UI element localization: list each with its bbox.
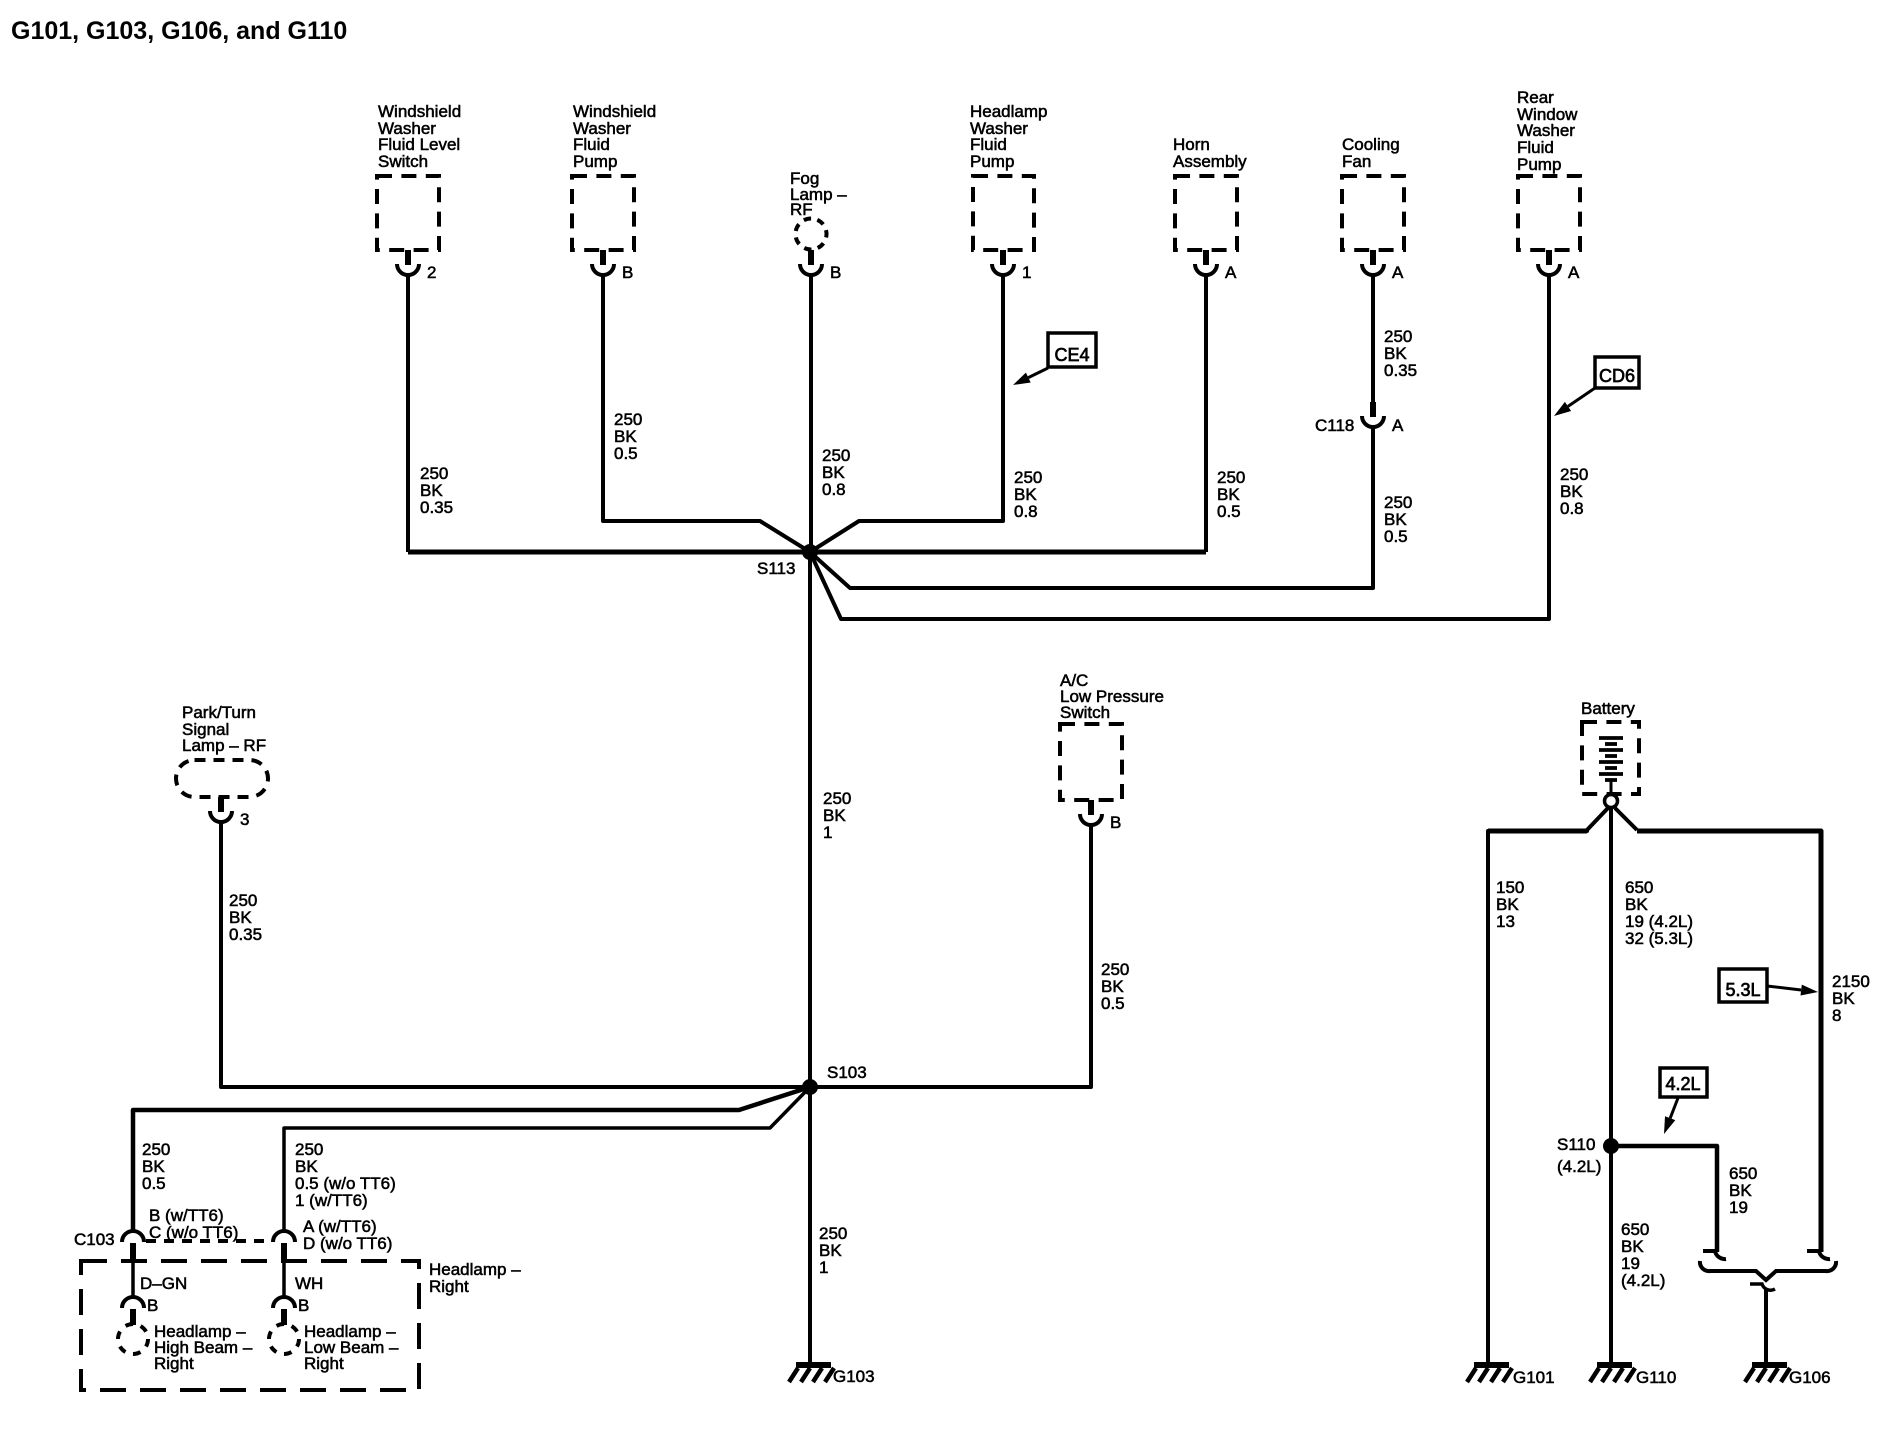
svg-text:Headlamp –Low Beam –Right: Headlamp –Low Beam –Right — [304, 1322, 399, 1373]
connector pin A of horn — [1195, 250, 1217, 275]
wire cooling fan to C118 — [1371, 275, 1375, 403]
svg-text:250BK1: 250BK1 — [819, 1224, 847, 1277]
svg-text:250BK0.8: 250BK0.8 — [1560, 465, 1588, 518]
svg-text:A: A — [1392, 416, 1404, 435]
svg-text:650BK19(4.2L): 650BK19(4.2L) — [1621, 1220, 1665, 1290]
ground G101 — [1467, 1365, 1512, 1382]
splice S103 — [802, 1079, 818, 1095]
windshield washer fluid level switch box — [377, 176, 439, 250]
wire S103 to G103 — [808, 1087, 812, 1365]
headlamp washer fluid pump box — [973, 176, 1034, 250]
rear window washer fluid pump box — [1518, 176, 1580, 250]
svg-text:D–GN: D–GN — [140, 1274, 187, 1293]
wire C118 to S113 — [810, 427, 1373, 588]
svg-text:250BK0.5: 250BK0.5 — [1384, 493, 1412, 546]
wire horn to S113 — [1204, 275, 1208, 552]
svg-text:RearWindowWasherFluidPump: RearWindowWasherFluidPump — [1517, 88, 1578, 174]
park/turn lamp dashed outline — [176, 760, 268, 797]
svg-text:G101: G101 — [1513, 1368, 1555, 1387]
cooling fan box — [1342, 176, 1404, 250]
callout CD6 — [1595, 357, 1639, 388]
wire park/turn lamp to S103 — [221, 822, 810, 1087]
fog lamp dashed circle — [796, 219, 827, 250]
wire battery to right branch — [1615, 808, 1637, 830]
svg-text:FogLamp –RF: FogLamp –RF — [790, 169, 847, 219]
callout 4.2L — [1660, 1068, 1707, 1097]
connector pin A of rear window pump — [1538, 250, 1560, 275]
brace joining branches — [1700, 1261, 1836, 1280]
svg-text:S103: S103 — [827, 1063, 867, 1082]
headlamp high beam bulb — [118, 1324, 148, 1354]
ground G110 — [1590, 1365, 1635, 1382]
svg-text:HornAssembly: HornAssembly — [1173, 135, 1247, 171]
callout 4.2L arrow — [1664, 1098, 1678, 1134]
connector pin B of washer fluid pump — [592, 250, 614, 275]
svg-text:250BK0.8: 250BK0.8 — [1014, 468, 1042, 521]
svg-text:A (w/TT6)D (w/o TT6): A (w/TT6)D (w/o TT6) — [303, 1217, 392, 1253]
wire battery to S110 and G110 — [1609, 808, 1613, 1365]
headlamp right dashed box — [81, 1261, 419, 1390]
connector pin B of fog lamp — [800, 250, 822, 275]
wire S103 to headlamp low beam — [284, 1087, 810, 1232]
wire fluid level switch to S113 — [406, 275, 410, 552]
horn assembly box — [1175, 176, 1237, 250]
callout CD6 arrow — [1554, 388, 1595, 416]
wire washer fluid pump to S113 — [603, 275, 810, 552]
svg-text:WH: WH — [295, 1274, 323, 1293]
svg-text:Headlamp –Right: Headlamp –Right — [429, 1260, 521, 1296]
svg-text:B: B — [147, 1296, 158, 1315]
callout 5.3L arrow — [1767, 985, 1818, 996]
svg-text:G101, G103, G106, and G110: G101, G103, G106, and G110 — [11, 17, 347, 45]
svg-text:S113: S113 — [757, 559, 795, 578]
connector C103 high beam side — [122, 1231, 144, 1259]
svg-text:CD6: CD6 — [1599, 366, 1635, 386]
headlamp low beam bulb — [269, 1324, 299, 1354]
svg-text:B: B — [1110, 813, 1121, 832]
ground G106 — [1745, 1365, 1790, 1382]
connector pin B high beam — [122, 1297, 144, 1325]
svg-text:250BK1: 250BK1 — [823, 789, 851, 842]
svg-text:250BK0.8: 250BK0.8 — [822, 446, 850, 499]
wire S113 to S103 — [808, 552, 812, 1087]
svg-text:250BK0.5 (w/o TT6)1 (w/TT6): 250BK0.5 (w/o TT6)1 (w/TT6) — [295, 1140, 396, 1210]
connector pin B of a/c switch — [1080, 800, 1102, 825]
callout 5.3L — [1719, 969, 1767, 1002]
connector pin 3 of park/turn lamp — [210, 797, 232, 822]
battery box — [1582, 722, 1639, 794]
splice S113 — [802, 544, 818, 560]
svg-text:Battery: Battery — [1581, 699, 1635, 718]
svg-text:C103: C103 — [74, 1230, 115, 1249]
wire S110 branch right — [1611, 1146, 1717, 1252]
svg-text:250BK0.35: 250BK0.35 — [420, 464, 453, 517]
svg-text:HeadlampWasherFluidPump: HeadlampWasherFluidPump — [970, 102, 1048, 171]
connector C118 — [1362, 402, 1384, 427]
svg-text:1: 1 — [1022, 263, 1031, 282]
battery cell symbol — [1599, 738, 1623, 795]
svg-text:250BK0.5: 250BK0.5 — [1101, 960, 1129, 1013]
svg-text:150BK13: 150BK13 — [1496, 878, 1524, 931]
svg-text:650BK19: 650BK19 — [1729, 1164, 1757, 1217]
wire headlamp washer pump to S113 — [810, 275, 1003, 552]
svg-text:B (w/TT6)C (w/o TT6): B (w/TT6)C (w/o TT6) — [149, 1206, 238, 1242]
svg-text:2150BK8: 2150BK8 — [1832, 972, 1870, 1025]
svg-text:WindshieldWasherFluidPump: WindshieldWasherFluidPump — [573, 102, 656, 171]
callout CE4 — [1048, 333, 1096, 367]
wire battery left branch horizontal — [1488, 829, 1587, 834]
svg-text:A: A — [1225, 263, 1237, 282]
connector pin 1 of headlamp washer pump — [992, 250, 1014, 275]
svg-text:B: B — [622, 263, 633, 282]
hook above G106 wire — [1750, 1284, 1775, 1290]
wire rear window pump to S113 — [810, 275, 1549, 619]
svg-text:B: B — [298, 1296, 309, 1315]
svg-text:650BK19 (4.2L)32 (5.3L): 650BK19 (4.2L)32 (5.3L) — [1625, 878, 1693, 948]
svg-text:250BK0.35: 250BK0.35 — [229, 891, 262, 944]
connector pin 2 of fluid level switch — [397, 250, 419, 275]
wire C103 to high beam lamp — [131, 1259, 135, 1298]
svg-text:250BK0.5: 250BK0.5 — [614, 410, 642, 463]
wire a/c switch to S103 — [810, 825, 1091, 1087]
svg-text:250BK0.5: 250BK0.5 — [1217, 468, 1245, 521]
wire battery to left branch — [1488, 808, 1608, 1365]
svg-text:G110: G110 — [1636, 1368, 1676, 1387]
svg-text:A/CLow PressureSwitch: A/CLow PressureSwitch — [1060, 671, 1164, 722]
C103 dashed connector link — [146, 1239, 272, 1243]
battery terminal circle — [1605, 795, 1618, 808]
svg-text:CE4: CE4 — [1054, 345, 1089, 365]
wire C103 to low beam lamp — [282, 1259, 286, 1298]
ground G103 — [789, 1365, 834, 1382]
svg-text:3: 3 — [240, 810, 249, 829]
svg-text:CoolingFan: CoolingFan — [1342, 135, 1400, 171]
svg-text:Headlamp –High Beam –Right: Headlamp –High Beam –Right — [154, 1322, 253, 1373]
svg-text:4.2L: 4.2L — [1665, 1074, 1700, 1094]
connector pin B low beam — [273, 1297, 295, 1325]
main bus wire at S113 — [408, 550, 1206, 555]
svg-text:250BK0.35: 250BK0.35 — [1384, 327, 1417, 380]
svg-text:G106: G106 — [1789, 1368, 1831, 1387]
wire brace to G106 — [1764, 1289, 1768, 1365]
svg-text:WindshieldWasherFluid LevelSwi: WindshieldWasherFluid LevelSwitch — [378, 102, 461, 171]
a/c low pressure switch box — [1060, 724, 1122, 800]
svg-text:A: A — [1392, 263, 1404, 282]
svg-text:B: B — [830, 263, 841, 282]
svg-text:G103: G103 — [833, 1367, 875, 1386]
svg-text:C118: C118 — [1315, 416, 1354, 435]
svg-text:Park/TurnSignalLamp – RF: Park/TurnSignalLamp – RF — [182, 703, 266, 755]
svg-text:2: 2 — [427, 263, 436, 282]
hook terminal left — [1703, 1251, 1726, 1259]
hook terminal right — [1807, 1251, 1830, 1259]
connector pin A of cooling fan — [1362, 250, 1384, 275]
wire fog lamp to S113 — [809, 274, 813, 552]
callout CE4 arrow — [1013, 368, 1048, 385]
wire battery right branch horizontal — [1637, 831, 1821, 1252]
svg-text:S110(4.2L): S110(4.2L) — [1557, 1135, 1601, 1176]
wire S103 to headlamp high beam — [133, 1087, 810, 1232]
svg-text:250BK0.5: 250BK0.5 — [142, 1140, 170, 1193]
svg-text:5.3L: 5.3L — [1725, 980, 1760, 1000]
windshield washer fluid pump box — [572, 176, 634, 250]
svg-text:A: A — [1568, 263, 1580, 282]
splice S110 — [1603, 1138, 1619, 1154]
connector C103 low beam side — [273, 1231, 295, 1259]
